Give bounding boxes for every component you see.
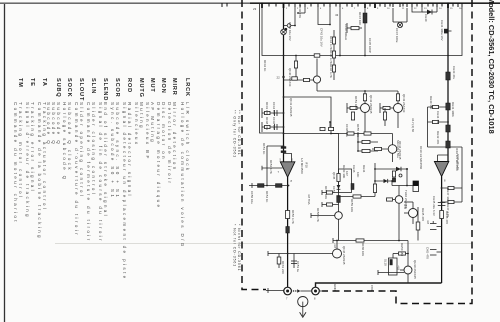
wire stub x295 xyxy=(284,4,296,26)
svg-text:QF40 2SA733: QF40 2SA733 xyxy=(288,68,292,87)
svg-text:RF42 1K: RF42 1K xyxy=(263,60,267,71)
svg-text:* Nicht für CD-3561: * Nicht für CD-3561 xyxy=(237,224,241,271)
svg-text:4.8 TDA: 4.8 TDA xyxy=(307,194,311,205)
capacitor CH41 xyxy=(444,29,452,34)
legend entry LRCK xyxy=(180,78,190,249)
dashed border left xyxy=(242,0,266,290)
svg-text:CF50 10u: CF50 10u xyxy=(250,191,254,204)
svg-text:QF46 2SC945: QF46 2SC945 xyxy=(342,246,346,265)
svg-text:CF53 1u: CF53 1u xyxy=(296,261,300,272)
resistor under QF42 emitter xyxy=(351,112,354,120)
svg-text:1/2 MC4560: 1/2 MC4560 xyxy=(300,158,304,174)
legend entry TM xyxy=(13,78,23,224)
svg-text:TM: TM xyxy=(17,78,23,88)
svg-text:RF45 4.7K: RF45 4.7K xyxy=(329,50,333,64)
wire bus y55 xyxy=(262,4,462,56)
svg-text:SLD M12 50u: SLD M12 50u xyxy=(396,140,400,158)
svg-text:Commande du moteur chariot: Commande du moteur chariot xyxy=(13,102,18,224)
svg-text:GND: GND xyxy=(333,284,337,292)
D wire y253 xyxy=(268,251,333,256)
svg-text:RH40 15K: RH40 15K xyxy=(429,96,433,109)
svg-text:MUTG: MUTG xyxy=(138,78,144,98)
svg-text:-4.8: -4.8 xyxy=(397,265,401,270)
svg-text:10C: 10C xyxy=(356,172,360,177)
svg-text:RH44: RH44 xyxy=(362,165,366,173)
legend entry TA xyxy=(37,78,47,240)
svg-text:** Nur für CD-3561: ** Nur für CD-3561 xyxy=(237,110,241,156)
svg-text:QH10 2SC945: QH10 2SC945 xyxy=(413,260,417,279)
legend entry SOCK xyxy=(62,78,72,182)
svg-text:CF52: CF52 xyxy=(332,186,336,193)
svg-text:CH44 10u: CH44 10u xyxy=(436,111,440,124)
svg-text:CF44 18P: CF44 18P xyxy=(272,102,276,115)
svg-text:RF54 1K: RF54 1K xyxy=(265,191,269,202)
svg-text:23: 23 xyxy=(253,7,257,11)
svg-text:Subcode Q: Subcode Q xyxy=(46,102,51,146)
svg-text:CF46 18P: CF46 18P xyxy=(272,117,276,130)
capacitor CF49 xyxy=(320,121,334,131)
resistor row y151 xyxy=(357,149,378,152)
legend entry SLEND xyxy=(98,78,108,243)
svg-text:Horloge de commutation voies D: Horloge de commutation voies D/G xyxy=(180,102,185,249)
labels group xyxy=(250,5,462,292)
svg-text:Sync. subcode S0 + S1: Sync. subcode S0 + S1 xyxy=(110,102,115,199)
U loop x318-330 xyxy=(318,4,331,25)
wire y133 right branch xyxy=(284,134,339,189)
svg-text:RF51 1K: RF51 1K xyxy=(262,143,266,154)
wire op2 output down xyxy=(441,177,443,284)
svg-text:CHD 470: CHD 470 xyxy=(426,247,430,259)
op-amp U2 xyxy=(434,162,448,183)
wire y97 branch from bus A xyxy=(284,97,332,134)
note only for CD-3561 xyxy=(233,110,241,158)
component on bus B y141 xyxy=(446,141,450,148)
pin numbers top xyxy=(286,8,462,10)
svg-text:970B: 970B xyxy=(370,285,374,292)
wire main bus B xyxy=(447,4,449,162)
resistor RH50 xyxy=(393,252,408,255)
legend entry MUTG xyxy=(134,78,144,146)
top edge pin ticks xyxy=(222,3,462,9)
RC row y113 xyxy=(262,108,284,118)
vertical with resistor x418 xyxy=(416,207,420,241)
svg-text:4.8: 4.8 xyxy=(426,220,430,224)
svg-text:QF43 2SA733: QF43 2SA733 xyxy=(402,94,406,113)
legend entry SLIN xyxy=(86,78,96,243)
wire x340 xyxy=(339,4,341,56)
inductor LF40 xyxy=(347,23,362,33)
svg-text:CF40 10u 16V: CF40 10u 16V xyxy=(288,22,292,41)
polarized cap bands on bus A xyxy=(281,146,286,148)
wire y185 with caps xyxy=(249,183,289,188)
B3 row y122 xyxy=(428,120,449,123)
svg-text:CHD 47u 4V: CHD 47u 4V xyxy=(456,154,460,170)
component on bus B y125 xyxy=(446,125,450,132)
svg-text:SLEND: SLEND xyxy=(102,78,108,101)
op1 feedback bracket xyxy=(284,154,292,162)
svg-text:CH47 10u: CH47 10u xyxy=(446,188,450,201)
svg-text:RF58 4.7K: RF58 4.7K xyxy=(316,208,320,222)
dashed border right xyxy=(322,0,472,304)
svg-text:Signal d'erreur de tracking: Signal d'erreur de tracking xyxy=(25,102,30,219)
feedback branch x267 xyxy=(267,145,284,185)
svg-text:Detection de miroir: Detection de miroir xyxy=(167,102,172,185)
wire dash to terminal xyxy=(266,288,284,293)
svg-text:SUBQ: SUBQ xyxy=(55,78,61,98)
transistor QH10 xyxy=(400,266,412,283)
svg-text:CF45 100P: CF45 100P xyxy=(368,38,372,53)
svg-text:RH45 470: RH45 470 xyxy=(421,208,425,221)
wire x408 down xyxy=(407,241,409,267)
svg-text:QF42 2SC945: QF42 2SC945 xyxy=(369,95,373,114)
svg-text:RF53 10K: RF53 10K xyxy=(354,96,358,109)
left page border line xyxy=(4,4,6,322)
resistor under QF43 emitter xyxy=(383,108,386,126)
svg-text:Signal detecteur un deplacemen: Signal detecteur un deplacement de piste xyxy=(122,102,127,281)
svg-text:RF46 4.7K: RF46 4.7K xyxy=(329,64,333,78)
terminal P2 xyxy=(312,287,323,300)
B3 row y147 xyxy=(428,146,463,148)
resistor on op1 output xyxy=(286,211,290,219)
svg-text:RF61 220: RF61 220 xyxy=(281,261,285,274)
svg-text:Commande d'ouverture du tiroir: Commande d'ouverture du tiroir xyxy=(74,102,79,237)
transistor TH10 xyxy=(386,186,403,241)
legend entry MUT xyxy=(145,78,155,161)
legend entry SLOUT xyxy=(74,78,84,237)
svg-text:RF59 10K: RF59 10K xyxy=(350,199,354,212)
svg-text:QF45: QF45 xyxy=(332,172,336,180)
cluster right of op1 output xyxy=(311,188,342,241)
svg-text:CH40: CH40 xyxy=(424,14,428,22)
transistor QF40 xyxy=(313,54,320,91)
wire y196 xyxy=(338,195,375,198)
component dark on bus B xyxy=(446,72,450,80)
legend entry TE xyxy=(25,78,35,219)
wire x358 xyxy=(357,133,359,151)
transistor QF42 xyxy=(347,91,370,133)
svg-text:Demarrage moteur disque: Demarrage moteur disque xyxy=(156,102,161,209)
C2 wire y185.5 xyxy=(392,181,413,186)
svg-text:43: 43 xyxy=(335,13,339,17)
svg-text:34.7 (4) 60: 34.7 (4) 60 xyxy=(411,118,415,132)
wire left L xyxy=(260,4,284,133)
wire into op1 xyxy=(262,166,283,171)
transistor QF46 xyxy=(333,241,342,259)
wire main bus A xyxy=(283,4,285,162)
svg-text:9F10 1/2 MC4560: 9F10 1/2 MC4560 xyxy=(419,146,423,170)
svg-text:CF47 100u: CF47 100u xyxy=(395,28,399,43)
svg-text:SCOR: SCOR xyxy=(114,78,120,98)
svg-text:3.9: 3.9 xyxy=(403,204,407,209)
svg-text:MON: MON xyxy=(160,78,166,94)
top page border line xyxy=(0,2,500,4)
svg-text:RF47 100: RF47 100 xyxy=(358,12,362,25)
svg-text:SLIN: SLIN xyxy=(90,78,96,94)
wire x462 right xyxy=(461,147,463,202)
wire x407 xyxy=(406,169,408,186)
legend entry MIRR xyxy=(167,78,177,185)
capacitor CF47 loop xyxy=(393,8,407,28)
svg-text:RF40 47K: RF40 47K xyxy=(298,5,302,18)
ground symbol xyxy=(298,297,308,318)
component on bus B y104 xyxy=(446,103,450,110)
resistor row y142 xyxy=(357,140,378,143)
svg-text:SL10: SL10 xyxy=(384,259,388,266)
svg-text:SLOUT: SLOUT xyxy=(78,78,84,101)
note not for CD-3561 xyxy=(233,224,241,271)
wire y240 xyxy=(333,238,408,243)
svg-text:RF52 4.7K: RF52 4.7K xyxy=(269,160,273,174)
sub-circuit box outline xyxy=(337,169,360,193)
B3 row y107 xyxy=(428,105,449,108)
svg-text:CH43 47u: CH43 47u xyxy=(452,66,456,79)
resistor column RF44-46 xyxy=(332,30,335,80)
wire mid bus y91 xyxy=(317,90,398,92)
svg-text:TA: TA xyxy=(41,78,47,87)
transistor QF43 xyxy=(380,91,403,128)
C3 loop right of op2 xyxy=(441,186,462,203)
svg-text:MUT: MUT xyxy=(149,78,155,93)
svg-text:CF42 10u 16V: CF42 10u 16V xyxy=(320,28,324,47)
svg-text:CH45 22u 6.3V: CH45 22u 6.3V xyxy=(432,196,436,216)
capacitor stub left y252 xyxy=(426,247,442,259)
svg-text:RF44 4.7K: RF44 4.7K xyxy=(329,36,333,50)
wire bracket x412-422 xyxy=(412,7,422,12)
small comp on op1 output xyxy=(286,227,290,234)
svg-text:Signal de fin de course du tir: Signal de fin de course du tiroir xyxy=(98,102,103,243)
svg-text:Silencieux BF: Silencieux BF xyxy=(145,102,150,161)
wire op1 output down xyxy=(287,177,289,291)
svg-text:RH42 47K: RH42 47K xyxy=(436,131,440,144)
svg-text:LF40 100uH: LF40 100uH xyxy=(344,24,348,40)
svg-text:Horloge subcode Q: Horloge subcode Q xyxy=(62,102,67,182)
svg-text:QF41 2SC945: QF41 2SC945 xyxy=(289,98,293,117)
svg-text:LRCK: LRCK xyxy=(184,78,190,97)
op-amp U1 xyxy=(278,158,295,183)
dotted link with arrow xyxy=(293,289,311,293)
svg-text:SOCK: SOCK xyxy=(66,78,72,98)
heavy wire y283 xyxy=(316,283,442,291)
C2 wire y181 with diode xyxy=(374,179,393,183)
svg-text:RF57 10K: RF57 10K xyxy=(324,186,328,199)
svg-text:CH41 100u 16V: CH41 100u 16V xyxy=(440,20,444,41)
svg-text:RF48 47K: RF48 47K xyxy=(265,117,269,130)
junction on bus A y77 xyxy=(277,55,314,82)
svg-text:CF48 47u: CF48 47u xyxy=(345,124,349,137)
svg-text:RH43 10K: RH43 10K xyxy=(342,165,346,178)
legend entry SCOR xyxy=(110,78,120,199)
resistor column x394 xyxy=(392,171,395,182)
svg-text:RH41 100K: RH41 100K xyxy=(451,102,455,117)
svg-text:Silencieux: Silencieux xyxy=(134,102,139,146)
resistor pair under QF42 xyxy=(331,132,375,135)
svg-text:RH48 470: RH48 470 xyxy=(445,211,449,224)
RC row y127 xyxy=(262,122,284,132)
svg-text:Commande de fermeture du tiroi: Commande de fermeture du tiroir xyxy=(86,102,91,243)
terminal P1 xyxy=(283,287,292,300)
svg-text:RF43 47K: RF43 47K xyxy=(265,102,269,115)
signal tag vertical xyxy=(413,181,419,192)
wire y272.5 xyxy=(378,270,404,275)
svg-text:ROD: ROD xyxy=(126,78,132,93)
svg-text:Commande de la bobine tracking: Commande de la bobine tracking xyxy=(37,102,42,240)
svg-text:22: 22 xyxy=(277,76,281,80)
svg-text:RF60 10K: RF60 10K xyxy=(361,243,365,256)
svg-text:-4.8: -4.8 xyxy=(333,243,337,248)
small pad circle xyxy=(399,174,402,177)
wire top short y13 xyxy=(297,4,305,14)
legend entry MON xyxy=(156,78,166,209)
capacitor CF40 xyxy=(281,24,291,35)
resistor RH48 on op2 line xyxy=(440,211,444,219)
legend entry SUBQ xyxy=(46,78,61,146)
B3 left branch x427 xyxy=(427,107,429,147)
svg-text:** Only for CD-3561: ** Only for CD-3561 xyxy=(233,110,237,158)
svg-text:RF55 10K: RF55 10K xyxy=(356,124,360,137)
svg-text:* Not for CD-3561: * Not for CD-3561 xyxy=(233,224,237,267)
op2 feedback bracket xyxy=(438,155,449,162)
scan fold line xyxy=(55,243,472,245)
capacitor below y253 xyxy=(291,254,297,269)
component dark RF47 xyxy=(363,8,367,56)
svg-text:Modell: CD-3561, CD-2030 TC, C: Modell: CD-3561, CD-2030 TC, CD-1018 xyxy=(487,0,496,134)
transistor TH11 xyxy=(404,202,418,224)
svg-text:IF10: IF10 xyxy=(305,162,309,168)
diode CH40 xyxy=(422,7,437,15)
capacitor CH45 on op2 line xyxy=(438,203,446,206)
svg-text:RH50 680: RH50 680 xyxy=(400,243,404,256)
svg-text:CH46: CH46 xyxy=(352,165,356,173)
C2 vertical x375 xyxy=(373,163,376,197)
slider switch box xyxy=(389,254,398,276)
resistor below y253 xyxy=(277,254,281,269)
svg-text:RF56 4.7K: RF56 4.7K xyxy=(291,210,295,224)
C2 wire y169 xyxy=(374,167,408,171)
capacitor stub left y226 xyxy=(426,220,442,230)
svg-text:TE: TE xyxy=(29,78,35,87)
transistor QF44 xyxy=(372,134,397,163)
svg-text:MIRR: MIRR xyxy=(171,78,177,96)
legend entry ROD xyxy=(122,78,132,281)
